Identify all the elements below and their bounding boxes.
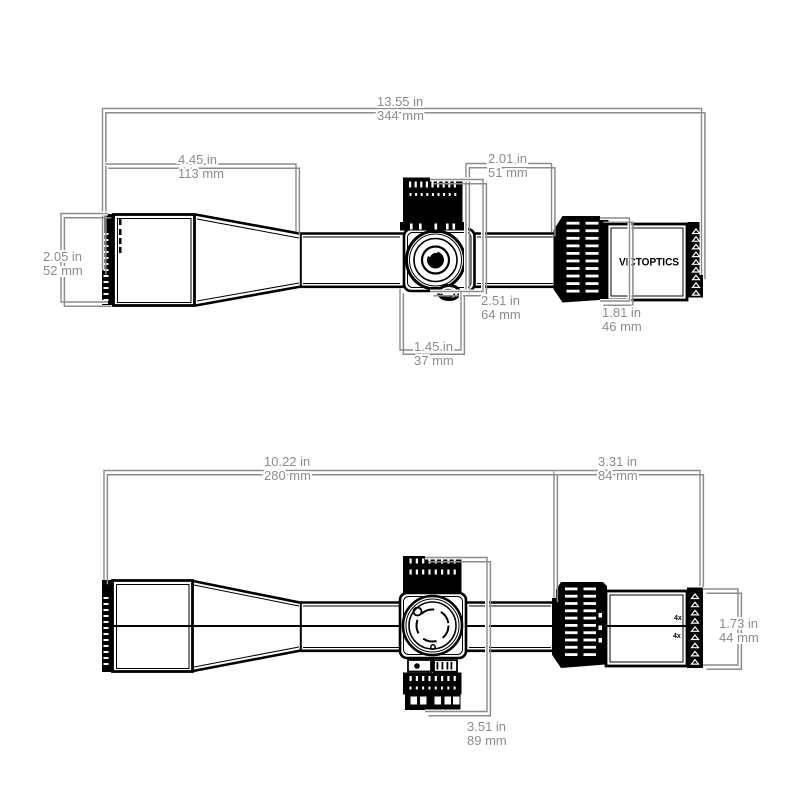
svg-text:84 mm: 84 mm — [598, 468, 638, 483]
plan view: windage turret base windows — [408, 659, 457, 673]
plan view: parallax knob block (protruding up) — [403, 556, 462, 594]
plan view: windage knob knurl block — [403, 673, 462, 695]
dimension 2.51 in / 64 mm saddle height (side view) — [430, 180, 486, 296]
dimension 3.31 in / 84 mm eyepiece assembly length (plan view) — [554, 471, 703, 591]
dimension 1.73 in / 44 mm eyepiece width (plan view) — [703, 589, 741, 669]
svg-text:52 mm: 52 mm — [43, 263, 83, 278]
label 1.73 in / 44 mm — [719, 616, 759, 645]
label 2.01 in / 51 mm — [488, 151, 528, 180]
plan view: taper cone — [193, 581, 301, 671]
svg-text:44 mm: 44 mm — [719, 630, 759, 645]
side view: eyepiece end chevron ring — [688, 222, 704, 298]
label 1.81 in / 46 mm — [602, 305, 642, 334]
svg-text:4x: 4x — [673, 633, 681, 640]
dimension 1.81 in / 46 mm eyepiece diameter (side view) — [600, 218, 633, 305]
side view: throw-lever nub below housing — [439, 286, 460, 300]
dimension 4.45 in / 113 mm objective length (side view) — [105, 164, 299, 235]
label 2.05 in / 52 mm — [43, 249, 83, 278]
dimension 3.51 in / 89 mm saddle width (plan view) — [425, 558, 490, 716]
label 10.22 in / 280 mm — [264, 454, 311, 483]
side view: objective knurled front ring — [102, 214, 113, 305]
side view: elevation turret knob — [400, 178, 465, 231]
plan view: scope centerline seam — [104, 625, 687, 627]
plan view: objective knurled front ring — [102, 580, 113, 672]
plan view: eyepiece body — [606, 591, 687, 666]
side view: magnification ring — [555, 217, 608, 302]
svg-text:64 mm: 64 mm — [481, 307, 521, 322]
side view: main tube right section — [474, 234, 556, 287]
label 1.45 in / 37 mm — [414, 339, 454, 368]
svg-text:1.45 in: 1.45 in — [414, 339, 453, 354]
side view: main tube left section — [300, 233, 405, 287]
svg-text:2.51 in: 2.51 in — [481, 293, 520, 308]
svg-text:10.22 in: 10.22 in — [264, 454, 310, 469]
svg-text:89 mm: 89 mm — [467, 733, 507, 748]
dimension 13.55 in / 344 mm overall length (side view) — [103, 109, 705, 280]
svg-text:344 mm: 344 mm — [377, 108, 424, 123]
side view: turret housing (saddle) — [404, 229, 475, 291]
plan view: windage knob end cap — [405, 695, 461, 711]
plan view: eyepiece end chevron ring — [687, 588, 703, 669]
plan view: turret housing (saddle) — [400, 593, 466, 658]
svg-text:2.01 in: 2.01 in — [488, 151, 527, 166]
side view: eyepiece body — [607, 224, 687, 300]
svg-text:1.73 in: 1.73 in — [719, 616, 758, 631]
svg-text:46 mm: 46 mm — [602, 319, 642, 334]
side view: taper cone — [196, 215, 302, 306]
label 2.51 in / 64 mm — [481, 293, 521, 322]
side view: parallax wheel circles — [407, 231, 465, 289]
svg-text:4x: 4x — [674, 615, 682, 622]
svg-text:51 mm: 51 mm — [488, 165, 528, 180]
plan view: main tube right section — [466, 603, 554, 651]
plan view: main tube left section — [300, 602, 402, 651]
dimension 2.05 in / 52 mm objective diameter (side view) — [61, 214, 111, 307]
svg-text:37 mm: 37 mm — [414, 353, 454, 368]
plan view: elevation turret top-view circle — [403, 596, 462, 655]
svg-text:113 mm: 113 mm — [178, 166, 224, 181]
svg-text:1.81 in: 1.81 in — [602, 305, 641, 320]
plan view: magnification ring — [553, 583, 606, 667]
plan view: objective bell body — [113, 581, 193, 672]
side view: objective bell body — [114, 215, 195, 306]
label 13.55 in / 344 mm — [377, 94, 424, 123]
dimension 2.01 in / 51 mm tube mounting length (side view) — [466, 164, 555, 295]
label 3.51 in / 89 mm — [467, 719, 507, 748]
dimension 1.45 in / 37 mm turret diameter (side view) — [400, 289, 464, 354]
label 3.31 in / 84 mm — [598, 454, 638, 483]
svg-text:2.05 in: 2.05 in — [43, 249, 82, 264]
label 4.45 in / 113 mm — [178, 152, 224, 181]
svg-text:3.31 in: 3.31 in — [598, 454, 637, 469]
svg-text:3.51 in: 3.51 in — [467, 719, 506, 734]
svg-text:280 mm: 280 mm — [264, 468, 311, 483]
svg-text:13.55 in: 13.55 in — [377, 94, 423, 109]
dimension 10.22 in / 280 mm front length (plan view) — [104, 471, 557, 603]
svg-text:4.45 in: 4.45 in — [178, 152, 217, 167]
